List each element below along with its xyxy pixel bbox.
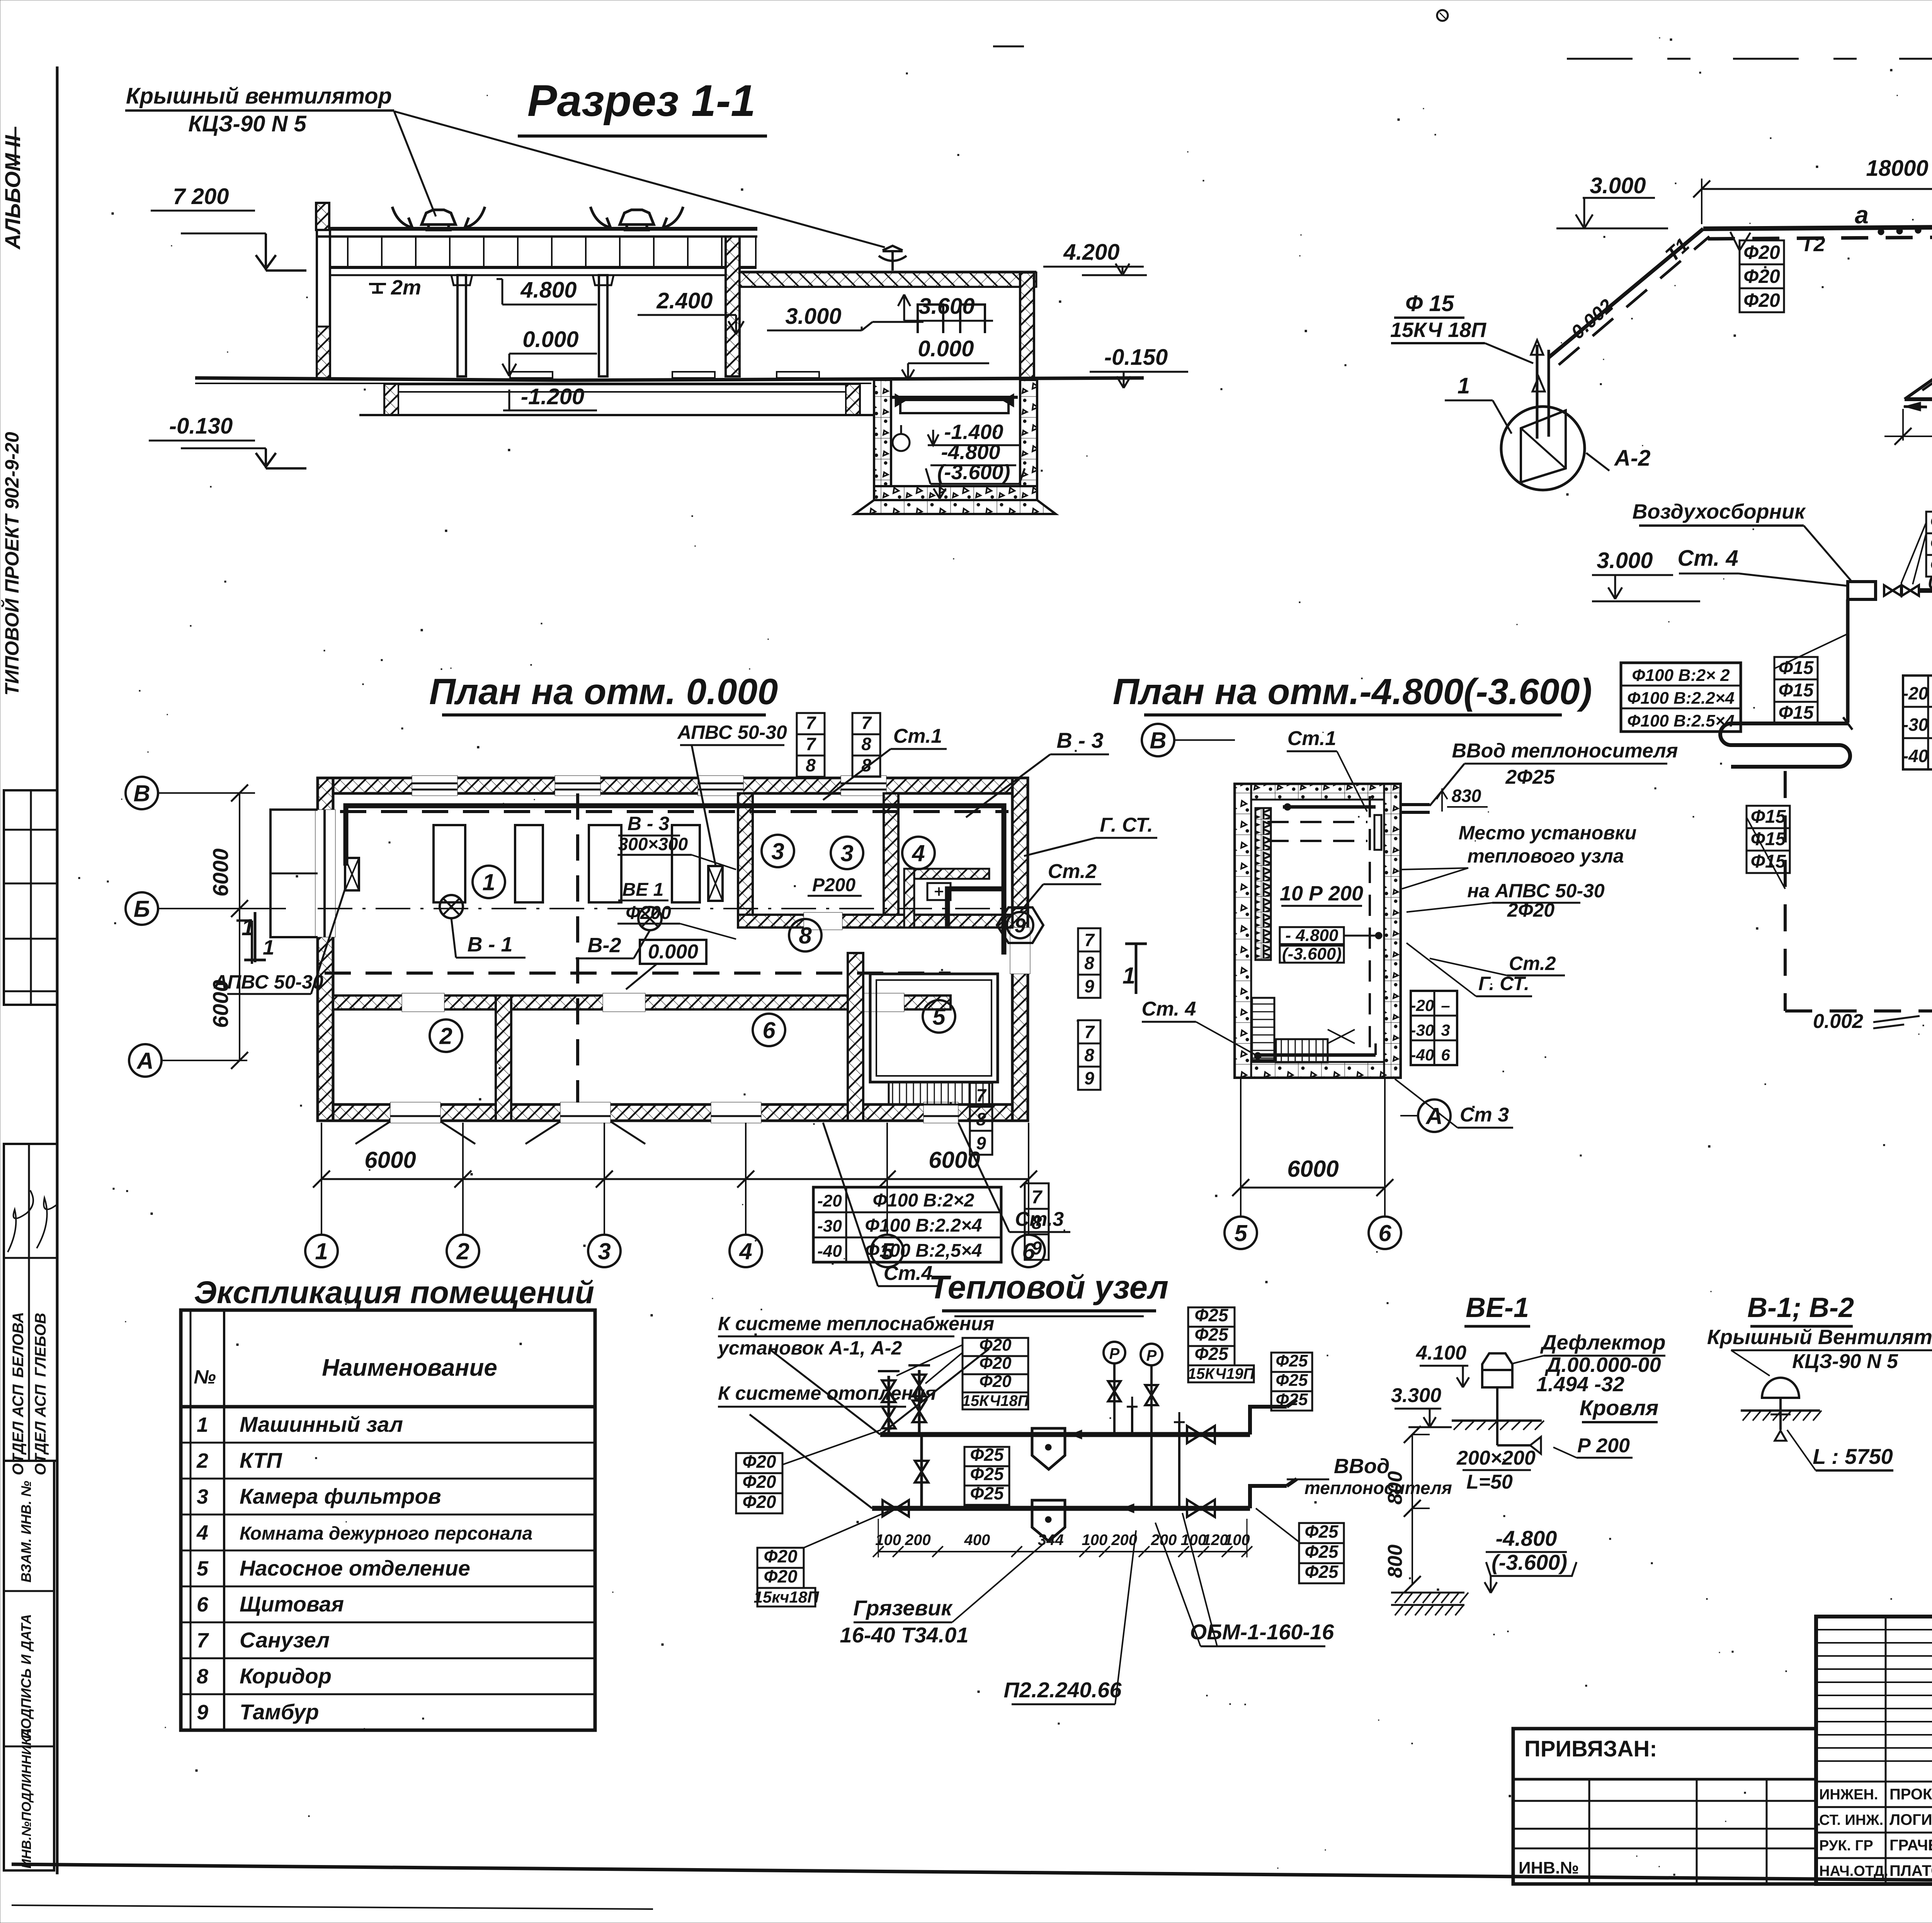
pump pit room5: [870, 974, 998, 1082]
svg-text:4: 4: [739, 1239, 752, 1264]
svg-text:6: 6: [762, 1018, 776, 1043]
svg-text:7: 7: [806, 734, 816, 754]
grid A plan2: [1418, 1099, 1451, 1132]
svg-text:9: 9: [197, 1701, 208, 1724]
svg-text:Ст.2: Ст.2: [1509, 953, 1556, 974]
svg-text:№: №: [194, 1366, 216, 1388]
svg-text:18000: 18000: [1866, 156, 1928, 181]
svg-text:7: 7: [976, 1085, 987, 1105]
fan B-1 symbol: [440, 895, 463, 918]
grid V: [126, 777, 158, 809]
plan2 level labels: [1280, 927, 1344, 944]
room 1: [473, 866, 505, 898]
svg-text:Ф20: Ф20: [1930, 533, 1932, 554]
svg-text:А: А: [1425, 1103, 1442, 1129]
svg-text:СТ. ИНЖ.: СТ. ИНЖ.: [1819, 1812, 1883, 1828]
floor pads: [510, 372, 553, 378]
svg-text:7: 7: [197, 1629, 209, 1652]
WC fixture: [927, 883, 951, 900]
section annex right wall: [1020, 272, 1034, 380]
svg-text:Ф20: Ф20: [1930, 555, 1932, 575]
svg-text:3: 3: [197, 1485, 208, 1508]
St.4 riser down to coil: [1846, 599, 1850, 723]
svg-text:Р: Р: [1109, 1345, 1120, 1362]
svg-text:Ф20: Ф20: [979, 1372, 1012, 1391]
svg-text:Экспликация помещений: Экспликация помещений: [194, 1275, 594, 1310]
svg-text:200: 200: [1111, 1532, 1137, 1549]
svg-text:Б: Б: [134, 896, 150, 922]
svg-text:4: 4: [196, 1521, 208, 1544]
svg-text:Ф25: Ф25: [1276, 1351, 1308, 1370]
interior wall grid4 vertical: [738, 793, 753, 921]
svg-text:Ст. 4: Ст. 4: [1677, 546, 1738, 571]
svg-text:0.002: 0.002: [1813, 1010, 1863, 1033]
svg-text:4.100: 4.100: [1416, 1342, 1466, 1364]
svg-text:Ф15: Ф15: [1751, 807, 1786, 827]
svg-text:0.000: 0.000: [648, 941, 698, 963]
plan2 stairs left: [1252, 998, 1274, 1060]
svg-text:2Ф25: 2Ф25: [1505, 766, 1555, 788]
svg-text:-20: -20: [1411, 996, 1434, 1014]
wall between rooms 6 and 5: [848, 953, 863, 1121]
svg-text:1: 1: [482, 870, 495, 895]
svg-text:КЦЗ-90 N 5: КЦЗ-90 N 5: [188, 111, 306, 136]
left end leaders to system labels: [769, 1349, 880, 1435]
grid dimension line bottom: [321, 1178, 1029, 1180]
svg-text:8: 8: [1084, 953, 1094, 973]
svg-text:3: 3: [771, 839, 784, 864]
svg-text:План на отм. 0.000: План на отм. 0.000: [429, 671, 778, 712]
ventilation dashed duct mid: [325, 972, 951, 975]
section mid wall with hatch: [726, 237, 740, 376]
svg-text:800: 800: [1384, 1545, 1406, 1578]
svg-text:a: a: [1855, 201, 1869, 229]
svg-text:7 200: 7 200: [173, 184, 229, 209]
grid row witness lines: [158, 792, 255, 794]
pit pump: [893, 434, 910, 451]
svg-text:Насосное отделение: Насосное отделение: [240, 1556, 470, 1580]
vertical dim 800/800: [1412, 1435, 1413, 1584]
machine hall equipment rectangles: [434, 825, 465, 902]
sensor stems: [1131, 1407, 1133, 1435]
svg-text:3: 3: [840, 841, 853, 866]
svg-text:3: 3: [598, 1239, 611, 1264]
room4 inner partition: [904, 869, 989, 879]
T1 run from St.4: [1919, 588, 1932, 593]
svg-text:Дефлектор: Дефлектор: [1540, 1331, 1665, 1354]
upper pipe right riser: [1250, 1400, 1297, 1435]
svg-text:ВЕ 1: ВЕ 1: [622, 880, 664, 900]
bottom dashed T2 runs: [1784, 771, 1787, 1011]
svg-text:7: 7: [1084, 1022, 1095, 1042]
svg-text:РУК. ГР: РУК. ГР: [1819, 1838, 1873, 1854]
plan2 outer walls: [1235, 784, 1400, 1077]
valve on lower pipe left: [883, 1500, 909, 1516]
plan2 radiator: [1374, 815, 1381, 850]
svg-text:Ф100 В:2× 2: Ф100 В:2× 2: [1632, 666, 1730, 685]
svg-text:2т: 2т: [391, 276, 421, 299]
table -20/-30/-40 7/8/9 axon: [1903, 676, 1932, 769]
svg-text:3.300: 3.300: [1391, 1384, 1441, 1407]
svg-text:3.000: 3.000: [785, 304, 841, 329]
svg-text:(-3.600): (-3.600): [1492, 1550, 1567, 1574]
svg-text:Наименование: Наименование: [322, 1355, 497, 1381]
svg-text:Воздухосборник: Воздухосборник: [1633, 500, 1806, 523]
svg-text:830: 830: [1452, 786, 1481, 806]
svg-text:5: 5: [932, 1004, 946, 1030]
svg-text:Ф25: Ф25: [970, 1464, 1004, 1484]
svg-text:А-2: А-2: [1614, 446, 1650, 471]
svg-text:5: 5: [197, 1557, 209, 1580]
svg-text:Ф20: Ф20: [1743, 289, 1780, 311]
svg-text:В - 3: В - 3: [1056, 728, 1103, 752]
svg-text:Ф 15: Ф 15: [1405, 291, 1454, 316]
mid riser between pipes: [920, 1435, 923, 1508]
svg-text:Комната дежурного персонала: Комната дежурного персонала: [240, 1523, 532, 1544]
heater coil serpentine: [1720, 723, 1850, 767]
left margin stamp boxes upper: [4, 790, 57, 1005]
basement duct under hall: [384, 384, 860, 415]
svg-text:ГРАЧЕВА: ГРАЧЕВА: [1889, 1837, 1932, 1854]
stack789 right of plan A: [1078, 928, 1100, 998]
svg-text:АПВС 50-30: АПВС 50-30: [677, 722, 787, 743]
interior wall vertical 2: [884, 793, 898, 921]
svg-text:3.000: 3.000: [1597, 548, 1653, 573]
svg-text:Санузел: Санузел: [240, 1628, 330, 1652]
svg-text:800: 800: [1384, 1471, 1406, 1505]
section cut mark 1 bottom: [1125, 944, 1147, 994]
grid A: [129, 1044, 162, 1077]
svg-text:100: 100: [1224, 1532, 1250, 1549]
svg-text:Камера фильтров: Камера фильтров: [240, 1484, 441, 1508]
svg-text:ИНВ.№ПОДЛИННИКА: ИНВ.№ПОДЛИННИКА: [19, 1728, 34, 1869]
fan B-2 symbol: [638, 907, 662, 930]
grid line 4: [745, 1123, 747, 1234]
APVS valve left: [345, 858, 359, 890]
arrows on riser: [1531, 340, 1543, 355]
mud separator 2: [1032, 1500, 1065, 1541]
svg-text:100: 100: [875, 1532, 901, 1549]
plan bottom wall door gaps: [390, 1102, 440, 1123]
svg-text:400: 400: [964, 1532, 990, 1549]
manometer 1: [1104, 1342, 1125, 1363]
svg-text:Грязевик: Грязевик: [853, 1596, 953, 1620]
frame top dashes: [1567, 58, 1932, 60]
svg-text:теплоносителя: теплоносителя: [1304, 1478, 1452, 1498]
roof fan symbol 1: [392, 207, 485, 230]
svg-text:ИНВ.№: ИНВ.№: [1519, 1858, 1579, 1877]
svg-text:8: 8: [861, 734, 871, 754]
svg-text:–: –: [1441, 996, 1450, 1014]
stack f20x3 heatunit-left: [736, 1452, 782, 1513]
svg-text:7: 7: [1084, 930, 1095, 950]
svg-text:3.000: 3.000: [1590, 173, 1646, 198]
svg-text:Ст.4: Ст.4: [884, 1262, 933, 1285]
svg-text:П2.2.240.66: П2.2.240.66: [1004, 1678, 1122, 1702]
svg-text:Ф15: Ф15: [1751, 829, 1786, 849]
svg-text:установок А-1, А-2: установок А-1, А-2: [717, 1337, 902, 1359]
svg-text:6000: 6000: [364, 1147, 416, 1173]
svg-text:15КЧ18П: 15КЧ18П: [962, 1392, 1029, 1409]
room 8: [789, 919, 821, 951]
svg-text:Ст.2: Ст.2: [1048, 860, 1097, 883]
svg-text:Ф25: Ф25: [1304, 1542, 1338, 1562]
svg-text:2: 2: [456, 1239, 469, 1264]
section interior column 2: [599, 275, 607, 376]
svg-text:Ф20: Ф20: [1743, 265, 1780, 287]
svg-text:7: 7: [1032, 1187, 1043, 1208]
dimension chain under heat unit: [878, 1551, 1247, 1552]
room6 left wall: [496, 996, 511, 1121]
svg-text:Ф25: Ф25: [1276, 1390, 1308, 1409]
svg-text:-4.800: -4.800: [941, 441, 1000, 464]
svg-text:200×200: 200×200: [1456, 1447, 1536, 1469]
svg-text:Ст. 4: Ст. 4: [1142, 998, 1196, 1020]
label 0.000 boxed: [640, 940, 706, 964]
stack f15x3 coil: [1774, 657, 1818, 724]
heating main bold polyline: [346, 806, 1004, 955]
svg-text:Тепловой узел: Тепловой узел: [929, 1269, 1168, 1306]
svg-text:теплового узла: теплового узла: [1467, 845, 1624, 867]
svg-text:Крышный Вентилятор: Крышный Вентилятор: [1707, 1326, 1932, 1349]
left exterior dock: [270, 810, 318, 937]
stack f20x3 top-run: [1740, 240, 1784, 312]
section left wall: [317, 230, 330, 379]
svg-text:ВЗАМ. ИНВ. №: ВЗАМ. ИНВ. №: [18, 1481, 34, 1583]
T1 mark left: [236, 921, 252, 964]
svg-text:8: 8: [799, 923, 812, 949]
svg-text:Ф25: Ф25: [970, 1445, 1004, 1465]
svg-text:Ст.1: Ст.1: [1287, 727, 1336, 750]
svg-text:9: 9: [1084, 976, 1094, 996]
grid 5 plan2: [1225, 1217, 1257, 1249]
svg-text:0.000: 0.000: [918, 336, 974, 361]
flow arrows on pipes: [1070, 1430, 1082, 1439]
corridor top wall: [738, 915, 1012, 927]
svg-text:15кч18П: 15кч18П: [754, 1588, 820, 1606]
grid 5: [871, 1235, 903, 1267]
svg-text:ГЛЕБОВ: ГЛЕБОВ: [32, 1313, 49, 1377]
svg-text:8: 8: [1032, 1213, 1042, 1233]
door swing chevrons bottom: [355, 1121, 475, 1144]
svg-text:ВЕ-1: ВЕ-1: [1466, 1292, 1529, 1323]
svg-text:Место установки: Место установки: [1459, 822, 1637, 844]
svg-text:-1.400: -1.400: [944, 420, 1003, 444]
grid 2: [447, 1235, 479, 1267]
plan outer wall top: [318, 778, 1028, 793]
svg-text:-4.800: -4.800: [1496, 1526, 1557, 1550]
svg-text:Ф25: Ф25: [970, 1483, 1004, 1503]
lower pipe right riser: [1250, 1479, 1297, 1508]
svg-text:9: 9: [1084, 1068, 1094, 1088]
svg-text:3: 3: [1441, 1021, 1450, 1039]
f100 table in plan: [813, 1187, 1001, 1262]
stack f15x3 bottom: [1747, 806, 1790, 873]
svg-text:4.200: 4.200: [1063, 240, 1119, 265]
axon entry vertical riser pair: [1536, 345, 1539, 439]
svg-text:Ф100 В:2.5×4: Ф100 В:2.5×4: [1627, 711, 1735, 730]
svg-text:В - 1: В - 1: [467, 933, 512, 956]
svg-text:Ф100 В:2.2×4: Ф100 В:2.2×4: [1627, 689, 1735, 708]
svg-text:1.494 -32: 1.494 -32: [1536, 1373, 1624, 1396]
plan2 dashed lines: [1267, 821, 1367, 823]
plan2 entry pipes right: [1400, 803, 1430, 806]
svg-text:L : 5750: L : 5750: [1813, 1444, 1893, 1469]
stack778 above plan: [797, 713, 825, 777]
plan2 bottom pipe: [1256, 1053, 1376, 1057]
f100 table axon: [1621, 663, 1741, 732]
svg-text:100: 100: [1082, 1532, 1108, 1549]
svg-text:Ф15: Ф15: [1779, 703, 1814, 723]
signature rows: [1816, 1781, 1932, 1783]
stack f20x2 heatunit-bl: [757, 1546, 804, 1588]
svg-text:- 4.800: - 4.800: [1286, 926, 1339, 945]
A-1 branch wedge: [1905, 397, 1932, 401]
svg-text:ПЛАТОНОВ: ПЛАТОНОВ: [1889, 1862, 1932, 1879]
svg-text:2: 2: [439, 1023, 452, 1049]
svg-text:Р: Р: [1146, 1347, 1157, 1364]
svg-text:Ф20: Ф20: [742, 1452, 776, 1472]
svg-text:В: В: [1150, 728, 1166, 754]
svg-text:Ф25: Ф25: [1194, 1324, 1228, 1344]
stack f20x3+15kch18P heatunit-top: [963, 1336, 1028, 1392]
room 3b: [831, 837, 863, 869]
axon dim 18000: [1702, 188, 1932, 190]
privyazan inner grid: [1588, 1779, 1590, 1884]
section ground floor line: [195, 378, 560, 380]
svg-text:-40: -40: [817, 1242, 842, 1261]
svg-text:К системе теплоснабжения: К системе теплоснабжения: [718, 1313, 994, 1334]
svg-text:ЛОГИНОВ: ЛОГИНОВ: [1889, 1811, 1932, 1828]
svg-text:Машинный зал: Машинный зал: [240, 1412, 403, 1436]
svg-text:-20: -20: [817, 1191, 842, 1210]
svg-text:Ф20: Ф20: [1743, 242, 1780, 263]
svg-text:В-2: В-2: [587, 934, 621, 957]
grid 3: [588, 1235, 621, 1267]
svg-text:ВВод: ВВод: [1334, 1455, 1389, 1478]
grid V plan2: [1142, 724, 1174, 756]
svg-text:(-3.600): (-3.600): [1282, 944, 1342, 963]
svg-text:6: 6: [197, 1593, 209, 1616]
stack f25x3 br: [1299, 1521, 1344, 1583]
svg-text:ТИПОВОЙ ПРОЕКТ 902-9-20: ТИПОВОЙ ПРОЕКТ 902-9-20: [1, 432, 23, 696]
parapet left: [316, 203, 329, 230]
plan2 stairs bottom: [1276, 1039, 1328, 1062]
svg-text:0.000: 0.000: [522, 327, 578, 352]
svg-text:ВВод теплоносителя: ВВод теплоносителя: [1452, 740, 1678, 762]
grid line 2: [462, 1123, 464, 1234]
svg-text:6000: 6000: [929, 1147, 980, 1173]
svg-text:8: 8: [1084, 1045, 1094, 1065]
svg-text:3.600: 3.600: [918, 294, 975, 319]
ventilation dashed duct vertical: [576, 793, 579, 1103]
svg-text:Кровля: Кровля: [1580, 1395, 1658, 1420]
svg-text:1: 1: [315, 1239, 328, 1264]
svg-text:9: 9: [1015, 915, 1026, 937]
svg-text:Ф100 В:2×2: Ф100 В:2×2: [873, 1190, 975, 1211]
air collector St.4: [1848, 582, 1876, 599]
grid 6: [1012, 1235, 1045, 1267]
mud separator 1 (gryazevik): [1032, 1428, 1065, 1469]
svg-text:8: 8: [976, 1109, 986, 1129]
grid line 5: [886, 1123, 888, 1234]
pit equipment: blower: [900, 400, 1009, 413]
plan2 top pipe detail: [1283, 805, 1376, 809]
svg-text:В: В: [133, 781, 150, 807]
room 6: [753, 1014, 785, 1046]
frame left border line: [56, 66, 59, 1874]
svg-text:2: 2: [196, 1449, 208, 1472]
roof fan symbol 2: [590, 207, 683, 230]
section annex roof: [740, 271, 1036, 274]
svg-text:1: 1: [197, 1413, 208, 1436]
svg-text:5: 5: [1234, 1220, 1248, 1246]
grid line 3: [604, 1123, 605, 1234]
BE-1 deflector: [1482, 1353, 1512, 1387]
riser with valves x2300: [888, 1376, 890, 1435]
stack789 right of plan B: [1078, 1020, 1100, 1090]
ground hatch heat unit: [1391, 1592, 1464, 1594]
svg-text:Г. СТ.: Г. СТ.: [1100, 814, 1153, 836]
svg-text:8: 8: [197, 1665, 208, 1688]
svg-text:1: 1: [1122, 963, 1135, 989]
room 9: [1007, 912, 1033, 938]
svg-text:4.800: 4.800: [520, 277, 577, 303]
plan2 inner duct channel: [1255, 808, 1271, 960]
circle detail A-2: [1501, 407, 1585, 490]
grid B: [126, 892, 158, 925]
pit floor and footing: [874, 486, 1037, 500]
svg-text:Ф15: Ф15: [1751, 851, 1786, 872]
heat unit upper pipe T1: [880, 1432, 1250, 1437]
left margin stamp boxes middle with signatures: [4, 1144, 57, 1461]
grid 1: [305, 1235, 338, 1267]
svg-text:15КЧ 18П: 15КЧ 18П: [1390, 318, 1486, 342]
ventilation dashed duct top: [340, 810, 1009, 813]
svg-text:Ст 3: Ст 3: [1460, 1104, 1509, 1126]
APVS valve top: [708, 866, 723, 901]
mid horizontal wall: [333, 996, 951, 1009]
svg-text:L=50: L=50: [1466, 1471, 1513, 1493]
svg-text:-20: -20: [1903, 683, 1929, 703]
heat unit lower pipe T2: [872, 1506, 1250, 1511]
title block outer: [1816, 1617, 1932, 1884]
svg-text:Ф20: Ф20: [742, 1492, 776, 1512]
svg-text:А: А: [136, 1048, 153, 1074]
section roof slab (tall block): [317, 227, 757, 231]
svg-text:Р 200: Р 200: [1577, 1435, 1630, 1457]
svg-text:1: 1: [1458, 373, 1470, 398]
svg-text:2Ф20: 2Ф20: [1507, 899, 1555, 921]
left margin stamp boxes lower: [4, 1461, 54, 1870]
title block left columns: [1885, 1617, 1887, 1884]
svg-text:ПРОКОФЬЕВА: ПРОКОФЬЕВА: [1889, 1786, 1932, 1803]
svg-text:-30: -30: [1411, 1021, 1434, 1039]
grid 4: [730, 1235, 762, 1267]
svg-text:-0.130: -0.130: [169, 414, 233, 439]
privyazan box: [1513, 1729, 1816, 1884]
stack789 near f100: [1025, 1183, 1049, 1260]
svg-text:Ф20: Ф20: [764, 1566, 797, 1586]
frame bottom secondary line: [12, 1905, 653, 1909]
svg-text:Разрез 1-1: Разрез 1-1: [527, 76, 755, 126]
valves right of St.4 collector: [1884, 585, 1901, 596]
B-1B-2 fan dome symbol: [1762, 1378, 1799, 1398]
svg-text:План на отм.-4.800(-3.600): План на отм.-4.800(-3.600): [1113, 671, 1592, 712]
axon entry diagonal pair T1: [1549, 229, 1703, 357]
svg-text:(-3.600): (-3.600): [937, 461, 1010, 484]
svg-text:Тамбур: Тамбур: [240, 1700, 319, 1724]
